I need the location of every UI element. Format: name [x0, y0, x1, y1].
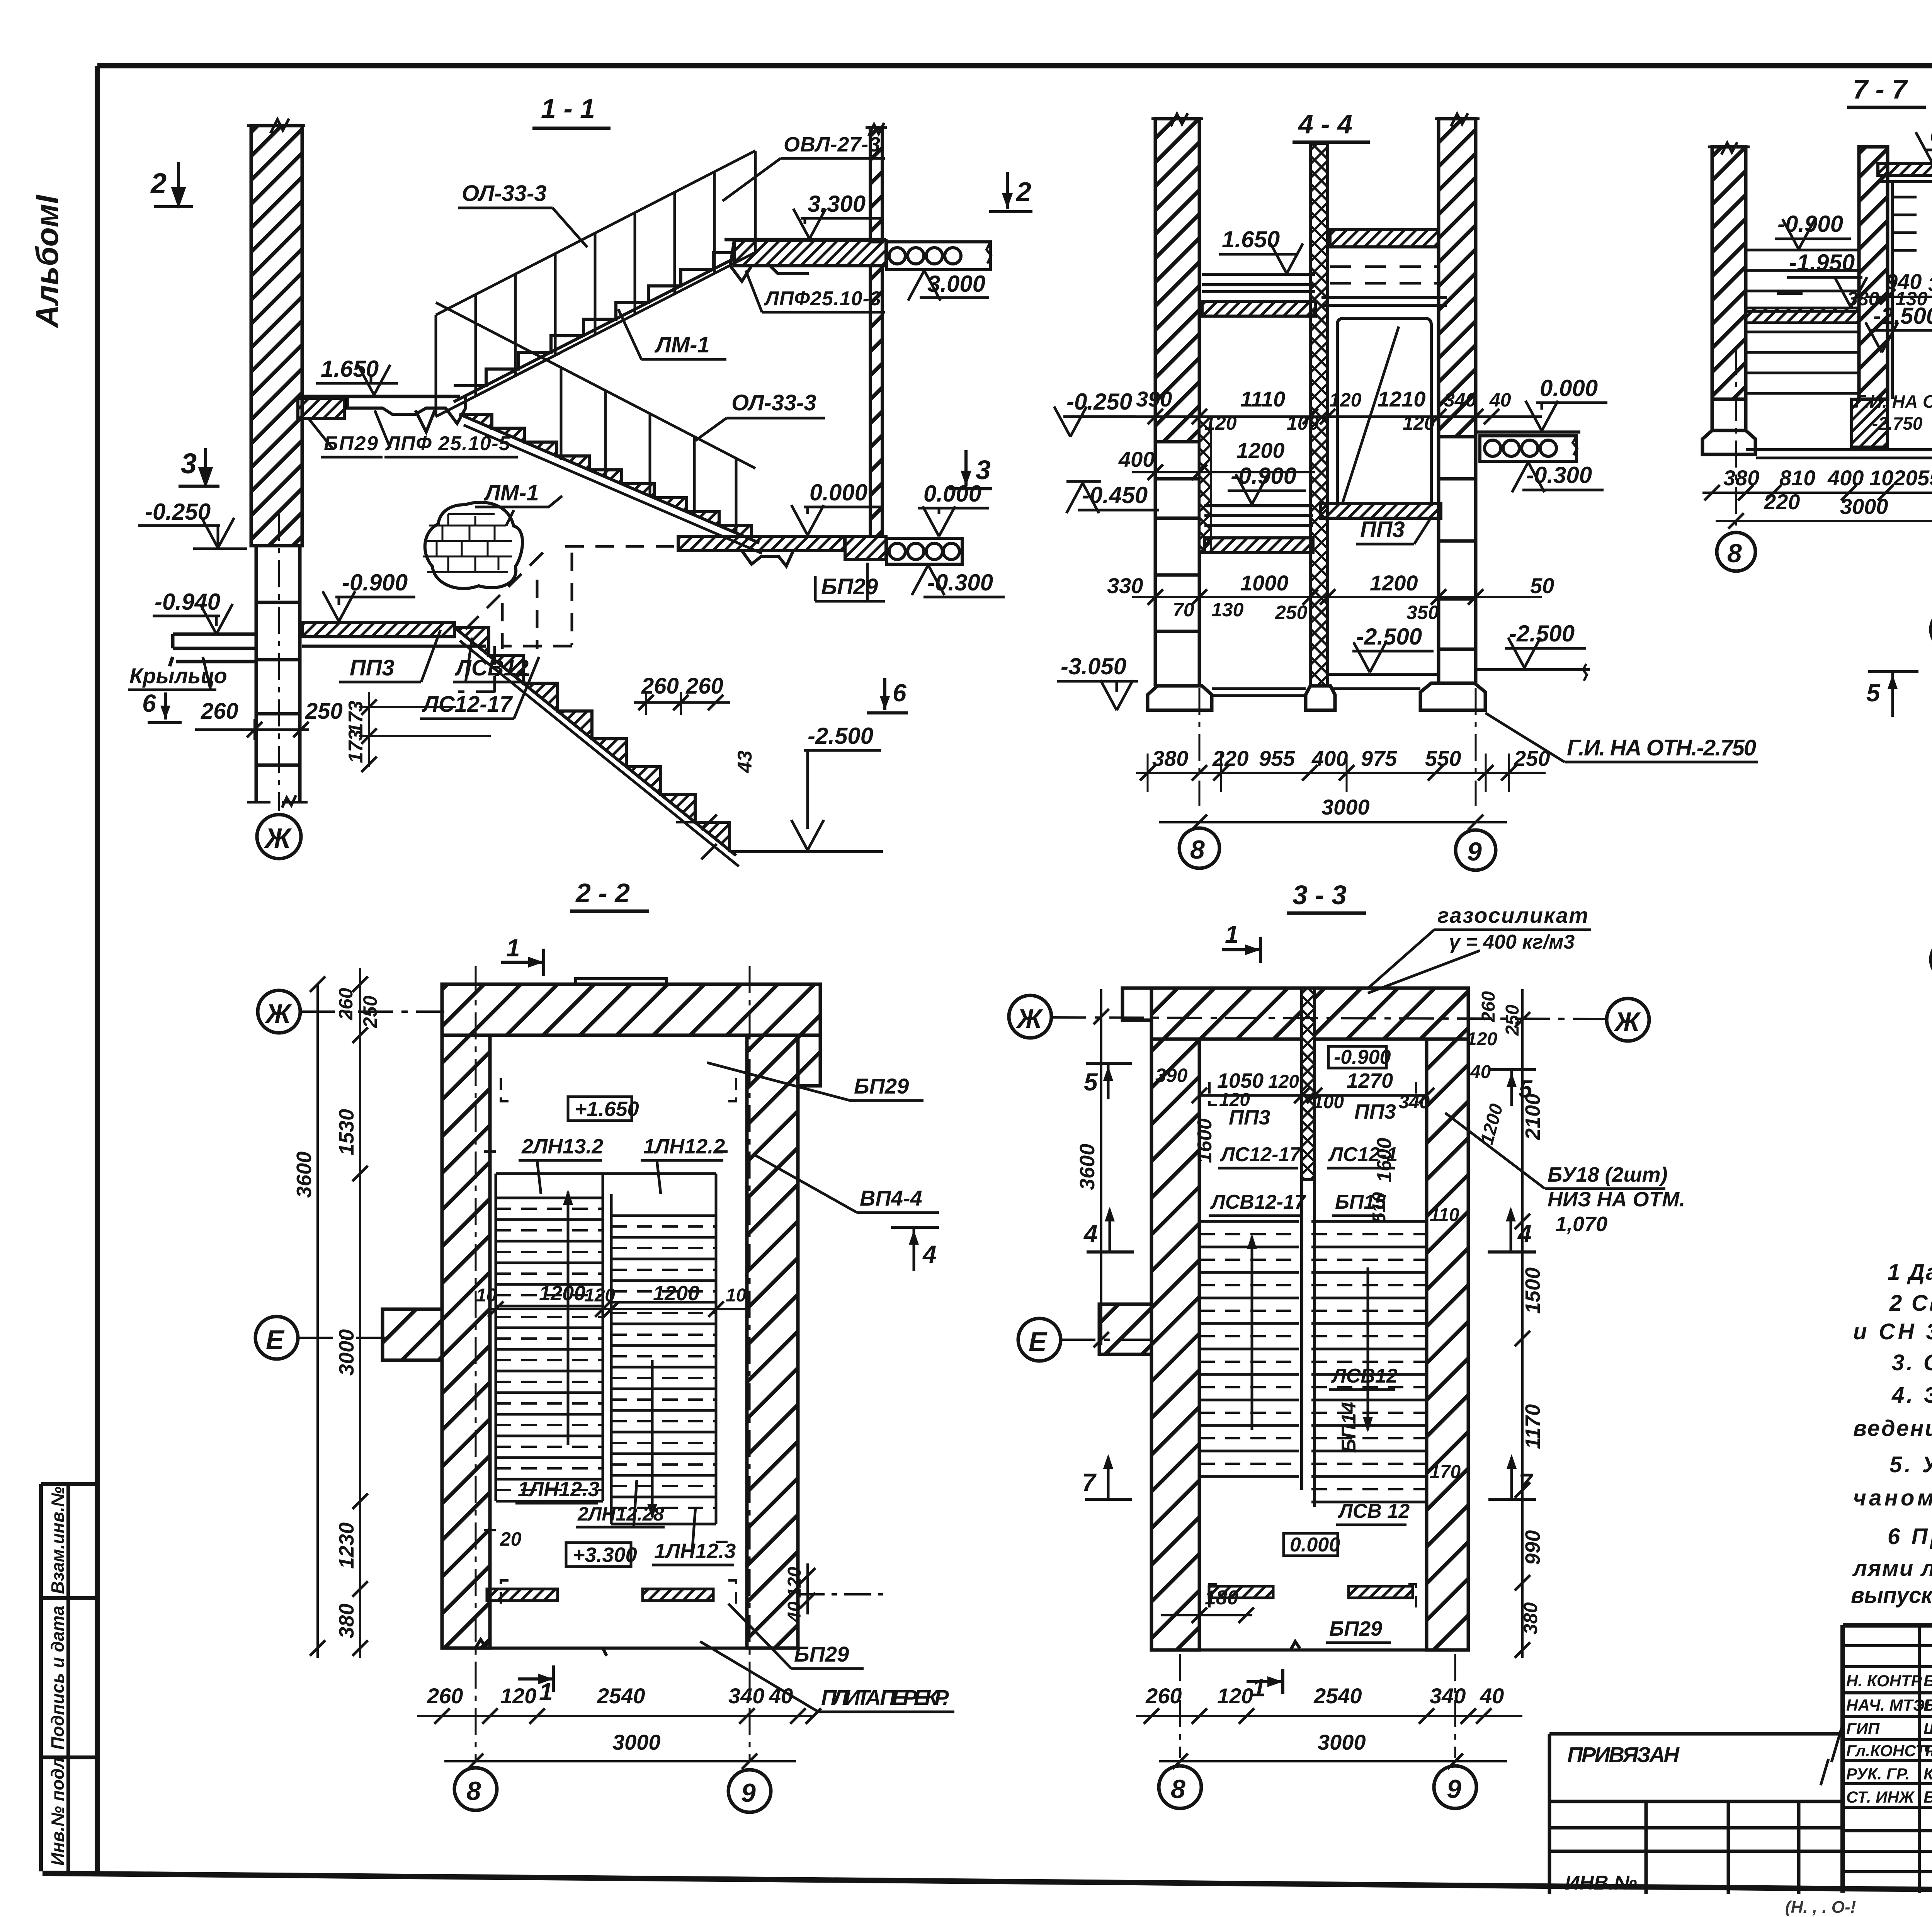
stair flights: right: [611, 1174, 716, 1524]
svg-text:-3.050: -3.050: [1061, 653, 1126, 679]
gazosilikat note: [1368, 903, 1591, 993]
svg-text:выпуск 1 „ Железобетонные лес: выпуск 1 „ Железобетонные лестницы кирпи…: [1851, 1583, 1932, 1608]
wall top break mark: [247, 119, 305, 133]
svg-text:Е: Е: [1029, 1327, 1048, 1357]
svg-text:70: 70: [1173, 599, 1194, 621]
hollow core floor at 0.000 right: [1476, 432, 1580, 461]
marker 4 right: [891, 1227, 939, 1271]
svg-text:510: 510: [1369, 1192, 1389, 1223]
marker 7 right: [1488, 1454, 1536, 1499]
bottom dim chain: [1702, 466, 1932, 529]
axis circles: [1717, 532, 1755, 571]
svg-text:ПП3: ПП3: [1229, 1106, 1270, 1129]
wall centerline: [278, 514, 280, 811]
svg-text:1110: 1110: [1240, 387, 1285, 411]
upper flight railing band OL-33-3: [436, 151, 755, 417]
insulation strip on left wall inner face: [1199, 417, 1211, 553]
marker 1 top: [501, 934, 544, 976]
right wall foundation: [1439, 437, 1476, 683]
E axis notch left: [1099, 1304, 1151, 1354]
left footing: [1148, 686, 1212, 710]
svg-text:ЛПФ25.10-3: ЛПФ25.10-3: [764, 287, 881, 310]
svg-text:0.000: 0.000: [923, 481, 981, 507]
svg-text:4. Элементы лестниц укладыва: 4. Элементы лестниц укладывать одновреме…: [1891, 1383, 1932, 1408]
svg-text:1200: 1200: [653, 1282, 699, 1305]
svg-text:1230: 1230: [335, 1522, 358, 1569]
svg-text:ПП3: ПП3: [1360, 517, 1405, 542]
dim 260 250 under porch: [195, 699, 343, 740]
0.000 floor right side: [678, 536, 962, 566]
svg-text:-2.500: -2.500: [1873, 303, 1932, 329]
svg-text:955: 955: [1259, 746, 1295, 771]
landing slab at +1.650: [298, 396, 466, 432]
svg-text:Ж: Ж: [265, 998, 293, 1029]
stair flights: left: [496, 1174, 716, 1501]
BU18 note: [1445, 1113, 1685, 1236]
svg-text:-2.500: -2.500: [1356, 624, 1422, 650]
svg-text:220: 220: [1212, 746, 1248, 771]
svg-text:50: 50: [1530, 573, 1554, 598]
svg-text:2100: 2100: [1521, 1094, 1544, 1140]
svg-text:-0.940: -0.940: [155, 589, 220, 615]
outer of title block: [1843, 1625, 1932, 1893]
svg-text:173: 173: [345, 730, 367, 763]
svg-text:1170: 1170: [1521, 1404, 1544, 1449]
level -2.500 mid: [1328, 624, 1439, 674]
axis 8 line: [1199, 270, 1201, 806]
axis circle Zh: [257, 815, 301, 859]
svg-text:0.000: 0.000: [1290, 1534, 1340, 1556]
level 3.000: [908, 270, 989, 301]
svg-text:260: 260: [1145, 1684, 1182, 1708]
svg-text:-0.900: -0.900: [1334, 1046, 1391, 1068]
svg-text:810: 810: [1779, 466, 1815, 490]
svg-text:1600: 1600: [1194, 1118, 1216, 1163]
dim row mid: 330 1000 1200 50: [1107, 571, 1554, 623]
section 6-6 plan: [1866, 557, 1932, 1249]
svg-text:170: 170: [1430, 1462, 1461, 1482]
svg-text:10: 10: [476, 1285, 497, 1306]
level -0.300: [1512, 462, 1604, 492]
right flight treads: [1311, 1221, 1427, 1502]
axis E circle left: [255, 1317, 298, 1359]
axis Zh circles and line: [1009, 995, 1051, 1038]
svg-text:ЛС12-1: ЛС12-1: [1328, 1143, 1398, 1166]
svg-text:120: 120: [1329, 389, 1362, 411]
svg-text:120: 120: [1466, 1029, 1497, 1050]
svg-text:ОЛ-33-3: ОЛ-33-3: [731, 390, 816, 415]
middle wall crosshatched: [1310, 143, 1328, 686]
svg-text:ПП3: ПП3: [350, 655, 395, 680]
axis dash-dot verticals: [476, 966, 750, 1762]
tread dims 260 260: [634, 674, 730, 715]
svg-text:-0.250: -0.250: [145, 499, 211, 525]
top floor slab right bay (3.300): [1330, 230, 1439, 247]
svg-text:380: 380: [1723, 466, 1759, 490]
svg-text:БЕГАНСКАЯ: БЕГАНСКАЯ: [1923, 1696, 1932, 1714]
privyazan table: [1549, 1734, 1843, 1894]
svg-text:ВП4-4: ВП4-4: [860, 1186, 922, 1210]
VP4-4 label: [755, 1155, 939, 1213]
svg-text:БП29: БП29: [854, 1074, 909, 1098]
svg-text:Г.И. НА ОТН.-2.750: Г.И. НА ОТН.-2.750: [1567, 735, 1756, 760]
svg-text:7 - 7: 7 - 7: [1853, 74, 1908, 104]
E axis notch left: [383, 1309, 442, 1360]
svg-text:1530: 1530: [335, 1109, 358, 1155]
marker 5 left: [1866, 672, 1918, 717]
GI note: [1855, 391, 1932, 434]
svg-text:ПЛИТА ПЕРЕКР.: ПЛИТА ПЕРЕКР.: [821, 1685, 949, 1709]
svg-text:260: 260: [427, 1684, 463, 1708]
svg-text:СТ. ИНЖ: СТ. ИНЖ: [1846, 1788, 1915, 1806]
foundation blocks under wall: [247, 546, 308, 808]
level -0.900: [1228, 463, 1306, 504]
svg-text:-2.500: -2.500: [808, 723, 873, 749]
svg-text:2540: 2540: [597, 1684, 645, 1708]
svg-text:2: 2: [150, 167, 167, 199]
svg-text:7: 7: [1082, 1468, 1097, 1496]
svg-text:ЛС12-17: ЛС12-17: [1219, 1143, 1301, 1166]
svg-text:120: 120: [1403, 412, 1435, 434]
svg-text:9: 9: [1447, 1774, 1461, 1804]
svg-text:120: 120: [500, 1684, 536, 1708]
svg-text:Гл.КОНСТР: Гл.КОНСТР: [1846, 1742, 1932, 1760]
middle pier hatched: [1859, 147, 1888, 399]
svg-text:8: 8: [1171, 1774, 1185, 1804]
GI note leader: [1485, 713, 1758, 762]
svg-text:ЛСВ12: ЛСВ12: [1331, 1365, 1398, 1387]
svg-text:РУК. ГР.: РУК. ГР.: [1846, 1765, 1910, 1783]
svg-text:173: 173: [345, 701, 367, 734]
level 0.000 left of wall: [791, 480, 883, 535]
svg-text:380: 380: [1520, 1602, 1541, 1635]
middle divider below: [1302, 1180, 1315, 1507]
axis E circle: [1018, 1318, 1061, 1361]
svg-text:(Н. , . О-!: (Н. , . О-!: [1785, 1898, 1856, 1917]
label OVL-27-3: [723, 133, 885, 201]
svg-text:4 - 4: 4 - 4: [1298, 109, 1352, 139]
lower-left flight steps down to -2.500: [454, 628, 739, 866]
svg-text:260: 260: [201, 699, 238, 724]
left brick wall hatched: [251, 126, 302, 546]
left wall foundation blocks: [1155, 442, 1199, 686]
axis Zh circle: [1931, 608, 1932, 651]
right small dims 40 120: [784, 1563, 885, 1623]
left wall base + footing: [1712, 399, 1746, 430]
svg-text:Взам.инв.№: Взам.инв.№: [48, 1486, 68, 1594]
level 3.300: [793, 191, 883, 239]
svg-text:БП14: БП14: [1338, 1402, 1360, 1453]
level -0.940: [153, 589, 233, 634]
pit dashed water lines: [1893, 197, 1932, 250]
signature table columns: [1843, 1625, 1932, 1893]
svg-text:1ЛН12.2: 1ЛН12.2: [643, 1135, 725, 1158]
axis Zh circle left: [258, 990, 300, 1033]
dim row 1: [1054, 387, 1542, 437]
svg-text:и СН 393-75.: и СН 393-75.: [1853, 1319, 1932, 1344]
left dim 3600: [1076, 989, 1188, 1347]
dim labels top: [1192, 1029, 1497, 1112]
svg-text:-0.250: -0.250: [1066, 389, 1132, 415]
svg-text:газосиликат: газосиликат: [1437, 903, 1588, 927]
BP29 label top: [707, 1063, 923, 1101]
svg-text:ЛСВ 12: ЛСВ 12: [1337, 1500, 1410, 1522]
BP15 label: [1332, 1191, 1386, 1216]
svg-text:400: 400: [1118, 447, 1155, 471]
left flight up arrow: [563, 1189, 573, 1445]
svg-text:ЛПФ 25.10-5: ЛПФ 25.10-5: [385, 432, 510, 455]
title block: [1549, 1625, 1932, 1917]
svg-text:-2.500: -2.500: [1509, 621, 1575, 646]
svg-text:975: 975: [1361, 746, 1397, 771]
svg-text:1500: 1500: [1521, 1267, 1544, 1314]
inner boundary: [1199, 1039, 1427, 1650]
svg-text:260: 260: [335, 988, 357, 1021]
landing slab at 1.650 left bay: [1202, 274, 1315, 292]
svg-text:ПРИВЯЗАН: ПРИВЯЗАН: [1567, 1742, 1680, 1767]
svg-text:3000: 3000: [1840, 494, 1888, 519]
PP3 slab right bay: [1320, 503, 1441, 518]
level -0.450: [1066, 481, 1159, 513]
0.000 slab on top of pier: [1878, 163, 1932, 175]
svg-text:0.000: 0.000: [810, 480, 867, 505]
svg-text:130: 130: [1211, 599, 1244, 621]
bottom dim chain: [417, 1684, 821, 1769]
hollow core floor slab right at 3.300: [887, 242, 991, 270]
marker 6 right: [867, 678, 908, 713]
porch slab (kryltso): [170, 634, 256, 666]
level -0.300: [912, 565, 1005, 597]
dims 940 350 50: [1847, 269, 1932, 310]
svg-text:2ЛН12.28: 2ЛН12.28: [577, 1503, 664, 1525]
svg-text:220: 220: [1764, 490, 1800, 514]
svg-text:3000: 3000: [1318, 1730, 1366, 1754]
level -2.500: [1866, 303, 1932, 352]
level 0.000 right of wall: [918, 481, 989, 536]
frame bottom line: [43, 1873, 1932, 1896]
svg-text:НИЗ НА ОТМ.: НИЗ НА ОТМ.: [1548, 1188, 1685, 1211]
lower railing verticals: [561, 367, 736, 532]
svg-text:120: 120: [1217, 1684, 1253, 1708]
basement floor line: [1746, 448, 1932, 451]
dims 1200 120 1200: [476, 1282, 747, 1317]
level -0.900: [1775, 211, 1851, 249]
svg-text:1200: 1200: [1236, 438, 1285, 463]
stair treads edge-on: [1746, 250, 1859, 393]
svg-text:1: 1: [1225, 920, 1239, 948]
slab at -0.900 left bay: [1204, 506, 1313, 526]
svg-text:+3.300: +3.300: [573, 1543, 637, 1567]
label PP3: [339, 630, 440, 682]
right flight down arrow: [647, 1360, 657, 1519]
LSV 12 label lower: [1336, 1500, 1410, 1525]
bottom dim chain: [1136, 746, 1550, 830]
corner jamb marks: [1209, 1082, 1416, 1607]
svg-text:120: 120: [1204, 412, 1237, 434]
svg-text:40: 40: [1480, 1684, 1504, 1708]
label PP3: [1356, 517, 1430, 544]
label LS12-17: [420, 657, 539, 719]
bottom lintels hatched: [487, 1589, 558, 1601]
svg-text:400: 400: [1827, 466, 1864, 490]
svg-text:1.650: 1.650: [1222, 226, 1280, 252]
svg-text:20: 20: [500, 1528, 522, 1550]
gazosilikat crosshatch column: [1302, 988, 1315, 1180]
label LM-1 dashed (hidden flight): [475, 480, 570, 533]
svg-text:ЛМ-1: ЛМ-1: [483, 480, 539, 505]
section 3-3 plan: [1009, 880, 1685, 1808]
svg-text:3: 3: [181, 447, 197, 480]
svg-text:ОЛ-33-3: ОЛ-33-3: [462, 181, 547, 206]
marker 5 right: [1490, 1070, 1536, 1106]
section marker 3 left: [179, 447, 219, 486]
svg-text:Подпись и дата: Подпись и дата: [48, 1606, 68, 1750]
svg-text:3.300: 3.300: [808, 191, 866, 217]
svg-text:БП29: БП29: [1329, 1617, 1382, 1640]
LSV12-17 label: [1209, 1191, 1306, 1216]
section 4-4 vertical section: [1054, 109, 1758, 870]
landing slab PP3 hatched (at -2.5 area): [1746, 308, 1859, 323]
BP29 bottom label: [728, 1604, 864, 1669]
axis E circle: [1931, 938, 1932, 981]
svg-text:ВОЛЬФЛЕНОК: ВОЛЬФЛЕНОК: [1923, 1788, 1932, 1806]
svg-text:120: 120: [1268, 1072, 1299, 1092]
svg-text:8: 8: [466, 1776, 481, 1806]
svg-text:340: 340: [728, 1684, 764, 1708]
svg-text:5: 5: [1866, 679, 1881, 707]
bottom edge: [1151, 1641, 1468, 1650]
axis circles: [454, 1768, 497, 1810]
svg-text:1050: 1050: [1217, 1069, 1264, 1092]
door frame in right bay: [1337, 318, 1431, 506]
svg-text:ОВЛ-27-3: ОВЛ-27-3: [784, 133, 880, 156]
svg-text:330: 330: [1107, 573, 1143, 598]
svg-text:Н. КОНТР: Н. КОНТР: [1846, 1672, 1922, 1690]
svg-text:3. Спецификацию элементов ле: 3. Спецификацию элементов лестницы см. л…: [1892, 1350, 1932, 1375]
svg-text:250: 250: [1275, 602, 1308, 623]
svg-text:ШЕЛЕВИЛЯ: ШЕЛЕВИЛЯ: [1923, 1720, 1932, 1738]
boxed +3.300: [566, 1543, 637, 1567]
svg-text:БУ18 (2шт): БУ18 (2шт): [1548, 1163, 1668, 1186]
level -0.250: [138, 499, 247, 549]
svg-text:340: 340: [1430, 1684, 1466, 1708]
dim 43: [676, 750, 756, 859]
svg-text:Ж: Ж: [264, 823, 292, 854]
section marker 2 top left: [150, 162, 193, 207]
section 2-2 plan: [255, 878, 954, 1812]
inner boundary: [490, 1035, 747, 1648]
bottom lintel: [1209, 1586, 1273, 1598]
svg-text:1270: 1270: [1347, 1069, 1393, 1092]
marker 1 bottom: [518, 1665, 553, 1706]
top opening with door: [576, 979, 667, 984]
level 1.650: [1219, 226, 1303, 274]
svg-text:КОЛУШЕВА: КОЛУШЕВА: [1923, 1765, 1932, 1783]
svg-text:БП29: БП29: [821, 574, 878, 599]
label BP29 bottom: [815, 563, 885, 601]
svg-text:БП29: БП29: [324, 432, 378, 455]
svg-text:250: 250: [1502, 1005, 1523, 1036]
svg-text:3000: 3000: [1321, 795, 1370, 819]
svg-text:0.000: 0.000: [1540, 375, 1598, 401]
svg-text:990: 990: [1521, 1530, 1544, 1565]
svg-text:260: 260: [1478, 991, 1499, 1022]
level -2.500 right: [1476, 621, 1590, 681]
boxed level +1.650: [568, 1097, 639, 1121]
level 0.000: [1916, 122, 1932, 162]
svg-text:9: 9: [741, 1778, 756, 1808]
svg-text:3000: 3000: [612, 1730, 661, 1754]
svg-text:8: 8: [1190, 835, 1205, 864]
svg-text:380: 380: [335, 1604, 358, 1638]
180 dim: [1161, 1587, 1254, 1623]
svg-text:4: 4: [1083, 1220, 1098, 1248]
bottom edge break: [442, 1638, 798, 1656]
svg-text:2: 2: [1015, 177, 1031, 207]
svg-text:γ = 400 кг/м3: γ = 400 кг/м3: [1449, 931, 1575, 953]
marker 4 left: [1083, 1207, 1134, 1252]
svg-text:250: 250: [305, 699, 343, 724]
level -3.050: [1057, 653, 1138, 710]
label LPF25.10-3: [746, 270, 885, 312]
svg-text:ЧЕРНЕЦКИЙ: ЧЕРНЕЦКИЙ: [1923, 1741, 1932, 1760]
svg-text:3600: 3600: [1076, 1144, 1099, 1190]
svg-text:6: 6: [893, 679, 906, 707]
svg-text:1210: 1210: [1378, 387, 1426, 411]
label OL-33-3 upper: [458, 181, 587, 247]
svg-text:4: 4: [922, 1240, 937, 1268]
svg-text:3: 3: [976, 455, 991, 485]
svg-text:ЛМ-1: ЛМ-1: [654, 332, 710, 357]
svg-text:390: 390: [1155, 1065, 1188, 1086]
brick inclusion blob: [423, 502, 522, 589]
marker 5 left: [1084, 1063, 1132, 1099]
lower flight from 1.650 to 0.000 with cast steps: [459, 414, 762, 553]
LSV12 label mid: [1329, 1365, 1398, 1390]
level 1.650: [316, 356, 398, 395]
level 0.000: [1526, 375, 1607, 431]
svg-text:350: 350: [1406, 602, 1439, 623]
left wall hatched: [1155, 119, 1199, 442]
svg-text:1: 1: [1252, 1674, 1266, 1702]
right wall hatched: [1439, 119, 1476, 437]
svg-text:550: 550: [1917, 466, 1932, 490]
svg-text:чаном растворе М 100: чаном растворе М 100: [1853, 1485, 1932, 1510]
flight labels: [519, 1135, 603, 1194]
svg-text:110: 110: [1430, 1205, 1459, 1225]
svg-text:40: 40: [1489, 389, 1511, 411]
svg-text:+1.650: +1.650: [575, 1097, 639, 1121]
svg-text:260: 260: [685, 674, 723, 699]
svg-text:2540: 2540: [1313, 1684, 1362, 1708]
bottom dim chain: [1136, 1684, 1522, 1769]
svg-text:1200: 1200: [1370, 571, 1418, 595]
svg-text:3 - 3: 3 - 3: [1293, 880, 1347, 910]
svg-text:Г.И. НА ОТН.: Г.И. НА ОТН.: [1855, 391, 1932, 412]
svg-text:-2.750: -2.750: [1872, 413, 1923, 434]
svg-text:лями лестниц общественных з: лями лестниц общественных зданий серии 2…: [1852, 1556, 1932, 1581]
svg-text:НАЧ. МТЭП: НАЧ. МТЭП: [1846, 1696, 1932, 1714]
svg-text:1000: 1000: [1240, 571, 1289, 595]
svg-text:БУХАРИНА: БУХАРИНА: [1923, 1672, 1932, 1690]
marker 7 left: [1082, 1454, 1132, 1499]
svg-text:1ЛН12.3: 1ЛН12.3: [518, 1478, 599, 1501]
PP3 floor slab at -0.900: [302, 623, 454, 637]
svg-text:5: 5: [1084, 1068, 1098, 1096]
boxed -0.900: [1328, 1046, 1391, 1068]
boxed 0.000: [1284, 1533, 1340, 1556]
svg-text:1: 1: [506, 934, 520, 962]
